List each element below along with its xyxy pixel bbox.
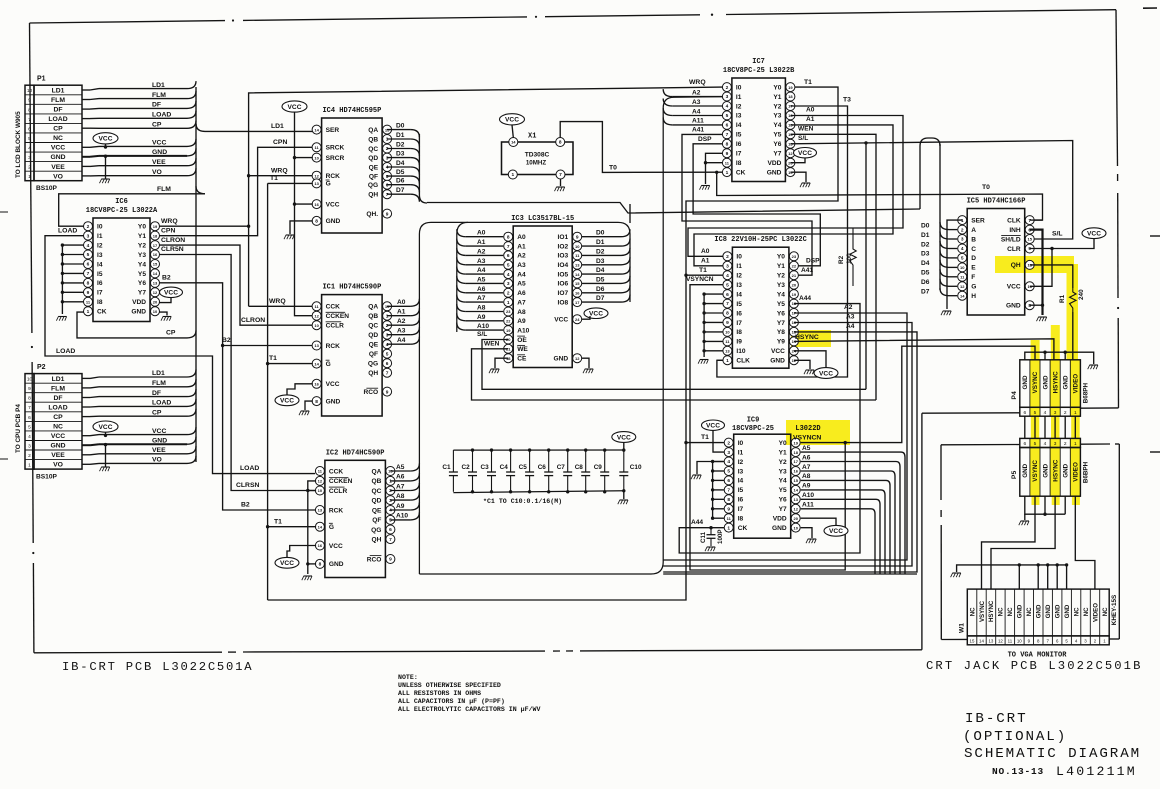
svg-text:G: G (326, 361, 331, 368)
svg-text:12: 12 (575, 356, 580, 361)
svg-text:Y6: Y6 (773, 141, 781, 148)
svg-text:QB: QB (372, 478, 382, 485)
svg-text:D6: D6 (596, 286, 605, 293)
svg-text:16: 16 (575, 291, 580, 296)
svg-text:G: G (971, 284, 976, 291)
svg-text:A5: A5 (802, 445, 811, 452)
svg-text:1: 1 (961, 218, 964, 224)
svg-text:A3: A3 (397, 328, 406, 335)
IC2 outputs A5-A10 into bus (390, 470, 410, 472)
svg-text:IO8: IO8 (558, 299, 569, 306)
svg-text:16: 16 (314, 202, 319, 207)
VCC oval at IC1 (275, 395, 299, 406)
svg-text:4: 4 (386, 165, 389, 171)
svg-text:4: 4 (87, 243, 90, 249)
svg-text:NC: NC (1073, 607, 1080, 616)
P1 wires to bus (82, 89, 90, 91)
svg-text:Y0: Y0 (138, 224, 146, 231)
svg-text:D5: D5 (921, 270, 930, 277)
svg-text:INH: INH (1009, 227, 1021, 234)
svg-text:VCC: VCC (819, 370, 833, 377)
svg-text:D6: D6 (921, 279, 930, 286)
svg-text:A8: A8 (396, 493, 405, 500)
svg-text:QE: QE (372, 507, 382, 514)
wire T1 tap to IC1 G (268, 363, 313, 365)
wire HSYNC from P5 to W1 pin13 (991, 496, 1055, 589)
svg-text:Y2: Y2 (773, 103, 781, 110)
svg-text:3: 3 (386, 332, 389, 338)
svg-text:5: 5 (1034, 410, 1037, 416)
svg-text:IB-CRT: IB-CRT (965, 711, 1027, 727)
svg-text:QC: QC (372, 488, 382, 495)
svg-text:6: 6 (87, 262, 90, 268)
IC IC9 18CV8PC-25 L3022D (734, 434, 791, 538)
svg-text:QD: QD (372, 497, 382, 504)
svg-text:IO4: IO4 (558, 262, 569, 269)
svg-text:A0: A0 (806, 107, 815, 114)
svg-text:4: 4 (28, 434, 31, 440)
svg-text:5: 5 (961, 256, 964, 262)
svg-text:NC: NC (53, 424, 63, 431)
svg-text:TD308C: TD308C (525, 152, 550, 159)
svg-text:I9: I9 (736, 339, 742, 346)
svg-text:I10: I10 (736, 348, 745, 355)
page edge tick marks (0, 211, 8, 213)
highlight QH output of IC5 (995, 256, 1074, 273)
wire DSP from IC8 Y1 to IC7 I6 (693, 144, 820, 266)
svg-text:I1: I1 (97, 233, 103, 240)
wire A3 from IC8 Y7 to A bus (663, 323, 912, 567)
svg-text:1: 1 (511, 172, 514, 178)
svg-text:VCC: VCC (51, 145, 65, 152)
svg-text:15: 15 (153, 262, 158, 267)
wire T0 from X1 pin8 to IC7 CK and IC5 CLK (560, 122, 722, 173)
svg-text:NC: NC (1026, 607, 1033, 616)
svg-text:A3: A3 (517, 262, 526, 269)
svg-text:LD1: LD1 (52, 87, 65, 94)
svg-text:I8: I8 (97, 299, 103, 306)
highlight HSYNC net label at IC8 (791, 330, 831, 347)
svg-text:13: 13 (725, 349, 730, 354)
svg-text:HSYNC: HSYNC (1052, 459, 1059, 481)
highlight wire P4-P5 HSYNC (1051, 416, 1060, 438)
svg-text:QB: QB (368, 313, 378, 320)
svg-text:Y5: Y5 (777, 301, 785, 308)
svg-text:VCC: VCC (505, 117, 519, 124)
A bus bottom horizontal to right verticals (663, 573, 917, 575)
svg-text:9: 9 (727, 506, 730, 512)
svg-text:OE: OE (517, 337, 527, 344)
svg-text:Y9: Y9 (777, 339, 785, 346)
svg-text:A11: A11 (802, 502, 814, 509)
svg-text:CLRON: CLRON (161, 237, 185, 244)
svg-text:A2: A2 (692, 89, 701, 96)
svg-text:C10: C10 (630, 464, 642, 471)
svg-text:IO5: IO5 (558, 271, 569, 278)
VCC oval at IC7 Y7 (794, 148, 817, 158)
svg-text:I6: I6 (736, 310, 742, 317)
svg-text:VEE: VEE (51, 164, 65, 171)
svg-text:VCC: VCC (554, 317, 568, 324)
svg-text:H: H (971, 293, 976, 300)
svg-text:4: 4 (389, 508, 392, 514)
svg-text:DSP: DSP (806, 257, 820, 264)
svg-text:8: 8 (727, 497, 730, 503)
svg-text:5: 5 (727, 469, 730, 475)
svg-text:C11: C11 (700, 531, 707, 543)
svg-text:A7: A7 (802, 464, 811, 471)
IC8 CLK wire (717, 359, 724, 361)
svg-text:E: E (971, 265, 976, 272)
wire A4 from IC8 Y8 to A bus (663, 332, 917, 572)
svg-text:GND: GND (772, 525, 787, 532)
svg-text:2: 2 (1064, 441, 1067, 447)
svg-text:QH: QH (372, 536, 382, 543)
svg-text:VCC: VCC (51, 433, 65, 440)
IC IC4 HD74HC595P (322, 118, 383, 233)
svg-text:WRQ: WRQ (271, 167, 288, 174)
svg-text:I6: I6 (736, 141, 742, 148)
svg-text:1: 1 (28, 174, 31, 180)
svg-text:A0: A0 (477, 230, 486, 237)
highlight wire P4-P5 VSYNC (1031, 416, 1040, 438)
svg-text:3: 3 (386, 155, 389, 161)
svg-text:23: 23 (506, 309, 511, 314)
ground at IC3 CE (495, 358, 508, 368)
svg-text:QB: QB (368, 136, 378, 143)
svg-text:Y3: Y3 (777, 282, 785, 289)
svg-text:14: 14 (318, 524, 323, 529)
svg-text:LOAD: LOAD (48, 404, 67, 411)
svg-text:1: 1 (727, 525, 730, 531)
svg-text:18CV8PC-25 L3022B: 18CV8PC-25 L3022B (723, 67, 795, 75)
svg-text:8: 8 (315, 219, 318, 225)
svg-text:12: 12 (153, 290, 158, 295)
svg-text:WEN: WEN (798, 126, 814, 133)
svg-text:10: 10 (1017, 639, 1022, 644)
svg-text:Y7: Y7 (773, 151, 781, 158)
svg-text:GND: GND (1042, 463, 1049, 477)
svg-text:D2: D2 (396, 142, 405, 149)
svg-text:B: B (971, 236, 976, 243)
svg-text:A0: A0 (701, 248, 710, 255)
svg-text:3: 3 (727, 450, 730, 456)
svg-text:CE: CE (517, 356, 527, 363)
IC IC2 HD74HC590P (325, 460, 386, 577)
svg-text:8: 8 (28, 107, 31, 113)
svg-text:A9: A9 (396, 503, 405, 510)
svg-text:1: 1 (1074, 410, 1077, 416)
svg-text:7: 7 (1028, 218, 1031, 224)
capacitor C11 100P on IC9 CK (709, 526, 712, 529)
svg-text:VCC: VCC (152, 428, 166, 435)
svg-text:2: 2 (726, 254, 729, 260)
wire CLRON from IC6 Y2 to IC1 CCLR (159, 245, 312, 325)
svg-text:20: 20 (793, 516, 798, 521)
svg-text:D1: D1 (596, 239, 605, 246)
wire WEN to IC3 WE (472, 349, 877, 400)
wire T1 tap to IC2 G (268, 526, 317, 528)
svg-text:Y6: Y6 (138, 280, 146, 287)
svg-text:6: 6 (28, 126, 31, 132)
svg-text:5: 5 (28, 136, 31, 142)
svg-text:CCK: CCK (326, 304, 341, 311)
svg-text:TO LCD BLOCK W905: TO LCD BLOCK W905 (15, 111, 22, 178)
svg-text:IC8 22V10H-25PC L3022C: IC8 22V10H-25PC L3022C (714, 236, 806, 244)
svg-text:I7: I7 (736, 320, 742, 327)
svg-text:CK: CK (738, 525, 748, 532)
svg-text:A5: A5 (477, 276, 486, 283)
svg-text:CP: CP (53, 414, 63, 421)
VCC oval at IC9 VDD (824, 525, 848, 536)
svg-text:4: 4 (726, 104, 729, 110)
svg-text:TO CPU PCB P4: TO CPU PCB P4 (15, 404, 22, 453)
svg-text:CP: CP (166, 330, 176, 337)
connector W1 KHEY-15S (967, 589, 1109, 636)
svg-text:I2: I2 (97, 242, 103, 249)
svg-text:8: 8 (319, 562, 322, 568)
svg-text:18: 18 (793, 450, 798, 455)
svg-text:Y3: Y3 (779, 468, 787, 475)
svg-text:T3: T3 (843, 97, 851, 104)
svg-text:8: 8 (28, 396, 31, 402)
wire LOAD net from IC6 I1 to IC2 CCK (45, 236, 315, 474)
svg-text:RCK: RCK (326, 343, 341, 350)
svg-text:2: 2 (28, 453, 31, 459)
svg-text:8: 8 (726, 142, 729, 148)
svg-text:D4: D4 (596, 267, 605, 274)
svg-text:13: 13 (314, 181, 319, 186)
svg-text:D1: D1 (396, 132, 405, 139)
IC IC3 LC3517BL-15 (513, 226, 572, 368)
svg-text:CP: CP (152, 409, 162, 416)
VCC symbol near P1 (93, 133, 118, 144)
svg-text:GND: GND (1017, 604, 1024, 618)
svg-text:L3022D: L3022D (795, 425, 820, 433)
svg-text:S/L: S/L (477, 331, 487, 338)
svg-text:VEE: VEE (51, 452, 65, 459)
wire A0 from IC7 Y3 to IC8 I0 (688, 116, 903, 257)
svg-text:22: 22 (506, 319, 511, 324)
svg-text:VO: VO (53, 173, 63, 180)
connector P1 (25, 85, 34, 181)
svg-text:8: 8 (559, 140, 562, 146)
svg-text:Y1: Y1 (138, 233, 146, 240)
svg-text:18CV8PC-25 L3022A: 18CV8PC-25 L3022A (86, 207, 158, 215)
svg-text:CRT JACK PCB L3022C501B: CRT JACK PCB L3022C501B (926, 659, 1143, 673)
svg-text:C9: C9 (594, 464, 603, 471)
wire VSYNCN from IC9 Y0 to IC8 I3 (690, 285, 845, 570)
svg-text:D4: D4 (396, 160, 405, 167)
svg-text:2: 2 (389, 488, 392, 494)
svg-text:GND: GND (1036, 604, 1043, 618)
svg-text:16: 16 (153, 252, 158, 257)
VCC symbol near P2 (93, 421, 118, 432)
svg-text:21: 21 (792, 273, 797, 278)
IB-CRT PCB outline right edge lower (921, 413, 923, 650)
svg-text:I5: I5 (97, 271, 103, 278)
svg-text:QF: QF (372, 517, 381, 524)
wire T3 from IC7 Y2 to IC8 CLK (717, 106, 848, 377)
P5 ground pins to ground (1025, 496, 1065, 514)
svg-text:10: 10 (27, 377, 33, 383)
IC5 INH and GND tied to ground (1030, 230, 1043, 315)
IC5 SER tied to ground (947, 220, 962, 309)
svg-text:3: 3 (28, 443, 31, 449)
svg-text:VIDEO: VIDEO (1073, 374, 1080, 394)
svg-text:14: 14 (153, 271, 158, 276)
svg-text:9: 9 (389, 557, 392, 563)
svg-text:5: 5 (726, 282, 729, 288)
svg-text:A6: A6 (517, 290, 526, 297)
W1 ground bus (957, 565, 1067, 572)
svg-text:GND: GND (1022, 375, 1029, 389)
svg-text:QH: QH (368, 192, 378, 199)
svg-text:VCC: VCC (280, 398, 294, 405)
svg-text:VCC: VCC (798, 150, 812, 157)
svg-text:9: 9 (726, 151, 729, 157)
svg-text:IC9: IC9 (747, 416, 760, 424)
svg-text:6: 6 (386, 361, 389, 367)
svg-text:I8: I8 (738, 516, 744, 523)
svg-text:HSYNC: HSYNC (988, 600, 995, 622)
svg-text:A4: A4 (517, 271, 526, 278)
svg-text:NC: NC (998, 607, 1005, 616)
svg-text:VCC: VCC (326, 201, 340, 208)
svg-text:3: 3 (1054, 410, 1057, 416)
svg-text:7: 7 (386, 370, 389, 376)
svg-text:A8: A8 (802, 473, 811, 480)
svg-text:2: 2 (28, 165, 31, 171)
svg-text:Y1: Y1 (779, 449, 787, 456)
ground at IC7 GND (790, 172, 806, 182)
svg-text:*C1 TO C10:0.1/16(M): *C1 TO C10:0.1/16(M) (483, 498, 562, 505)
svg-text:3: 3 (961, 237, 964, 243)
svg-text:VCC: VCC (99, 424, 113, 431)
address bus channel (419, 222, 630, 574)
svg-text:C6: C6 (538, 464, 547, 471)
IC7 input jogs from A bus A2 A3 A4 A11 (663, 89, 672, 97)
connector P5 (1020, 438, 1081, 447)
signal bus vertical (195, 87, 197, 462)
svg-text:9: 9 (28, 98, 31, 104)
svg-text:VCC: VCC (589, 311, 603, 318)
svg-text:5: 5 (389, 518, 392, 524)
svg-text:7: 7 (726, 301, 729, 307)
svg-text:VDD: VDD (132, 299, 146, 306)
svg-text:VSYNC: VSYNC (979, 600, 986, 622)
svg-text:4: 4 (727, 459, 730, 465)
wire VSYNCN from IC9 Y0 to P4 VSYNC (801, 346, 1035, 442)
svg-text:19: 19 (506, 328, 511, 333)
svg-text:QA: QA (368, 127, 378, 134)
wire CLR5N from IC6 Y3 to IC2 CCLR (159, 255, 315, 491)
svg-text:2: 2 (386, 146, 389, 152)
P2 wires to bus (82, 377, 90, 379)
svg-text:QG: QG (368, 361, 378, 368)
svg-text:10: 10 (318, 488, 323, 493)
svg-text:A3: A3 (692, 99, 701, 106)
svg-text:A4: A4 (692, 108, 701, 115)
highlight wire P4-P5 VIDEO (1071, 416, 1080, 438)
svg-text:3: 3 (389, 498, 392, 504)
IC8 inputs I4-I10 tied to ground (703, 294, 705, 357)
wire WEN from IC7 Y5 (790, 134, 876, 400)
svg-text:DF: DF (152, 102, 161, 109)
svg-text:D4: D4 (921, 260, 930, 267)
svg-text:Y5: Y5 (779, 487, 787, 494)
svg-text:I5: I5 (738, 487, 744, 494)
svg-text:VCC: VCC (771, 348, 785, 355)
svg-text:13: 13 (793, 497, 798, 502)
IC7 I7 I8 tied to ground (706, 153, 723, 184)
svg-text:A10: A10 (802, 492, 814, 499)
svg-text:2: 2 (726, 85, 729, 91)
svg-text:VDD: VDD (767, 160, 781, 167)
svg-text:GND: GND (131, 309, 146, 316)
IC5 CLR tied to VCC (1030, 239, 1094, 249)
svg-text:A10: A10 (517, 327, 529, 334)
svg-text:QD: QD (368, 155, 378, 162)
svg-text:WRQ: WRQ (161, 218, 178, 225)
svg-text:7: 7 (726, 132, 729, 138)
svg-text:A2: A2 (397, 318, 406, 325)
svg-text:LD1: LD1 (271, 123, 284, 130)
wire T1 to IC4 G (268, 182, 313, 184)
svg-text:CP: CP (152, 122, 162, 129)
svg-text:9: 9 (28, 386, 31, 392)
svg-text:A8: A8 (517, 309, 526, 316)
svg-text:5: 5 (726, 113, 729, 119)
ground near P2 (105, 445, 107, 467)
IC9 outputs A5-A11 to A bus (801, 452, 905, 574)
svg-text:GND: GND (1042, 375, 1049, 389)
svg-text:9: 9 (386, 211, 389, 217)
svg-text:VCC: VCC (1087, 231, 1101, 238)
svg-text:IC7: IC7 (752, 58, 765, 66)
wire B2 from IC6 Y6 to IC1 RCK and IC2 RCK (159, 283, 315, 510)
connector P4 (1020, 360, 1081, 408)
svg-text:8: 8 (315, 399, 318, 405)
svg-text:I4: I4 (736, 122, 742, 129)
svg-text:I2: I2 (738, 459, 744, 466)
svg-text:C8: C8 (575, 464, 584, 471)
connector P2 (25, 374, 34, 470)
svg-text:C5: C5 (519, 464, 528, 471)
IC5 CLK from T0 (1030, 219, 1043, 221)
svg-text:A44: A44 (691, 519, 703, 526)
svg-text:A7: A7 (477, 295, 486, 302)
wire A2 from IC8 Y6 to A bus (663, 313, 907, 560)
VCC oval at IC2 (275, 557, 299, 568)
svg-text:I4: I4 (738, 478, 744, 485)
svg-text:11: 11 (1008, 639, 1013, 644)
IC IC5 HD74HC166P (967, 209, 1024, 316)
wire WRQ from IC6 Y0 to IC4 RCK IC1 CCK IC7 I0 (159, 225, 248, 227)
svg-text:12: 12 (998, 639, 1003, 644)
wire LD1 from bus to IC4 SER (196, 124, 205, 131)
svg-text:WRQ: WRQ (689, 79, 706, 86)
svg-text:DF: DF (53, 107, 62, 114)
svg-text:FLM: FLM (51, 97, 65, 104)
svg-text:100P: 100P (717, 530, 724, 544)
svg-text:3: 3 (1054, 441, 1057, 447)
svg-text:GND: GND (329, 561, 344, 568)
svg-text:IO2: IO2 (558, 243, 569, 250)
svg-text:SER: SER (326, 127, 340, 134)
svg-text:LOAD: LOAD (240, 465, 259, 472)
svg-text:T0: T0 (609, 164, 617, 171)
